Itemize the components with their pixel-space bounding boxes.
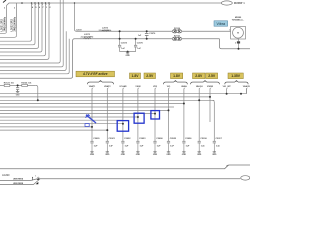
junction dot VAUX4 on bus <box>198 99 200 101</box>
wire C2074 bottom to ground rail <box>119 47 121 52</box>
resistor R2123 <box>4 84 10 86</box>
ground symbol <box>17 90 19 91</box>
wire long vertical exiting left <box>0 0 60 63</box>
svg-text:GND: GND <box>182 154 187 156</box>
svg-text:GND: GND <box>105 154 110 156</box>
junction dot VSIM on bus <box>137 116 139 118</box>
brace under 1.35V label <box>225 81 248 85</box>
svg-text:4.7V if RF active: 4.7V if RF active <box>82 72 108 76</box>
wire C2022 to ground <box>122 143 124 151</box>
svg-text:VANA: VANA <box>181 85 187 88</box>
wire VIO_INT vertical drop <box>226 89 228 94</box>
ground symbol for C2025 <box>168 151 170 152</box>
wire VBAT2 vertical drop <box>106 89 108 142</box>
wire from top bus down to L2072 wire <box>75 3 77 31</box>
wire long vertical exiting left <box>0 0 63 67</box>
ground symbol for C2022 <box>122 151 124 152</box>
svg-text:2R2/100MHz: 2R2/100MHz <box>13 16 16 31</box>
off-page connector MUXBZ oval <box>221 1 232 5</box>
wire elbow from top bus at x=38.5 exiting left <box>0 3 39 48</box>
junction dot on bus line3 <box>37 99 39 101</box>
capacitor C2022 <box>121 140 124 142</box>
wire bottom pair upper <box>0 179 38 181</box>
wire C2025 to ground <box>168 143 170 151</box>
junction dot VIO_INT on bus <box>226 93 228 95</box>
wire VIO vertical drop <box>168 89 170 142</box>
annotation label 2.5V <box>206 73 218 79</box>
annotation small blue box <box>85 124 89 127</box>
svg-text:GND: GND <box>121 154 126 156</box>
svg-text:AGND: AGND <box>2 173 10 177</box>
svg-text:M: M <box>237 33 239 35</box>
pin tick at bus entry <box>32 177 34 180</box>
svg-text:C2026: C2026 <box>185 138 192 140</box>
brace under 2.8V 2.5V labels <box>191 81 220 85</box>
svg-text:Vibra: Vibra <box>217 22 226 26</box>
capacitor C2123 branch <box>17 85 19 87</box>
wire lower vibra drive from left exit <box>0 39 172 79</box>
svg-text:C2017: C2017 <box>216 138 223 140</box>
annotation label 1.8V <box>171 73 183 79</box>
junction dot motor pin2 net <box>238 48 240 50</box>
junction dot at L2072 wire <box>119 30 121 32</box>
annotation label 2.5V <box>144 73 156 79</box>
EMI filter L2022 vertical <box>16 3 18 29</box>
svg-text:VSIM: VSIM <box>135 86 140 88</box>
svg-text:VSIM2: VSIM2 <box>207 86 214 88</box>
wire upper vibra drive horizontal <box>76 30 172 32</box>
vibra motor circle <box>233 27 244 38</box>
wire C2074 branch vertical <box>119 31 121 45</box>
resistor R2124 <box>22 84 28 86</box>
tick at AGND jog <box>226 165 228 166</box>
wire power bus line 8 <box>0 116 138 118</box>
capacitor C2021 <box>106 140 109 142</box>
wire power bus line 4 <box>0 103 184 105</box>
svg-text:1: 1 <box>35 176 36 178</box>
vibra motor M2090 box <box>231 27 246 40</box>
svg-text:VIO_INT: VIO_INT <box>223 86 232 88</box>
inductor L2072 <box>102 30 109 31</box>
wire C2026 to ground <box>183 143 185 151</box>
wire C2016 to ground <box>198 143 200 151</box>
svg-text:MUXBZ' 1: MUXBZ' 1 <box>234 3 245 5</box>
capacitor C2076 bridging vibra wires <box>146 31 148 33</box>
svg-text:C2024: C2024 <box>156 137 163 140</box>
wire VSIM2 vertical drop <box>209 89 211 97</box>
wire long vertical exiting left <box>0 39 69 74</box>
capacitor C2023 <box>136 140 139 142</box>
junction dot VIO on bus <box>168 109 170 111</box>
tick at fan wire top <box>32 4 33 5</box>
wire C2017 to ground <box>213 143 215 151</box>
wire C2020 to ground <box>91 143 93 151</box>
wire VSIM2 stub below bus <box>209 97 211 122</box>
wire top horizontal net MUXBZ to off-page <box>7 3 222 6</box>
annotation blue box <box>134 113 144 123</box>
wire power bus line 1 <box>0 93 246 95</box>
junction dot on top bus <box>21 2 23 4</box>
wire power bus line 9 <box>0 119 123 121</box>
junction dot VBAT2 on bus <box>106 129 108 131</box>
junction dot VANA on bus <box>183 103 185 105</box>
capacitor C2026 <box>182 140 185 142</box>
wire power bus line 12 <box>0 129 107 131</box>
svg-text:GND: GND <box>125 55 130 57</box>
svg-text:C2075: C2075 <box>137 43 144 45</box>
wire power bus line 6 <box>0 109 169 111</box>
wire power bus line 11 <box>0 126 92 128</box>
svg-text:2.5V: 2.5V <box>208 74 216 78</box>
wire elbow from top bus at x=31.5 exiting left <box>0 3 32 41</box>
wire from R2126 to vibra motor <box>182 30 231 32</box>
svg-text:VIO: VIO <box>167 86 171 88</box>
arrowhead at bus entry lower <box>36 182 39 184</box>
wire VSIM vertical drop <box>137 89 139 142</box>
tick at fan wire top <box>42 4 43 5</box>
wire VBAT1 vertical drop <box>91 89 93 142</box>
annotation label 2.8V <box>193 73 206 79</box>
wire VANA vertical drop <box>183 89 185 142</box>
ground symbol for C2023 <box>137 151 139 152</box>
svg-text:VBAT2: VBAT2 <box>104 85 111 88</box>
svg-text:2.2uH/100MHz: 2.2uH/100MHz <box>99 30 112 32</box>
svg-text:R2123: R2123 <box>4 83 11 85</box>
junction dot at L2073 wire <box>119 38 121 40</box>
wire bottom net AGND horizontal <box>0 165 250 169</box>
tick at fan wire top <box>39 4 40 5</box>
svg-text:2.8V: 2.8V <box>195 74 203 78</box>
junction dot on bus line1 <box>240 93 242 95</box>
junction dot C2076 top <box>146 30 148 32</box>
tick at fan wire top <box>49 4 50 5</box>
svg-text:VAUX4: VAUX4 <box>196 85 204 88</box>
wire power bus line 10 <box>0 123 123 125</box>
junction dot C2076 bottom <box>146 38 148 40</box>
annotation blue box <box>151 111 160 119</box>
wire elbow from top bus at x=49 exiting left <box>0 3 49 59</box>
svg-text:VCHAR: VCHAR <box>119 85 127 88</box>
wire from R2127 to vibra motor <box>182 38 220 40</box>
wire bus line1 corner up to VBACK wire <box>245 89 247 94</box>
wire C2023 to ground <box>137 143 139 151</box>
svg-text:GND: GND <box>197 154 202 156</box>
capacitor C2017 <box>213 140 216 142</box>
wire VAUX4 vertical drop <box>198 89 200 142</box>
wire elbow from top bus at x=35 exiting left <box>0 3 35 45</box>
svg-text:T3N0080+C..: T3N0080+C.. <box>232 20 245 22</box>
ground symbol for C2021 <box>106 151 108 152</box>
arrowhead at bus entry upper <box>37 178 40 180</box>
svg-text:VBAT1: VBAT1 <box>89 85 96 88</box>
wire C2075 bottom to ground rail <box>135 47 137 52</box>
junction dot at L2073 wire <box>135 38 137 40</box>
wire power bus line 2 <box>0 96 210 98</box>
svg-text:C2020: C2020 <box>93 138 100 140</box>
ground symbol for C2026 <box>183 151 185 152</box>
annotation label 1.35V <box>228 73 243 79</box>
svg-text:C2022: C2022 <box>124 138 131 140</box>
annotation blue pen mark <box>86 115 96 123</box>
wire row corner down to bus line3 <box>36 85 38 100</box>
ground symbol for C2017 <box>213 151 215 152</box>
svg-text:VBACK: VBACK <box>243 85 250 88</box>
annotation label 1.8V <box>130 73 141 79</box>
junction dot ground rail <box>127 51 129 53</box>
svg-text:UEMVIBRA: UEMVIBRA <box>13 178 24 181</box>
svg-text:2: 2 <box>235 43 236 45</box>
capacitor C2016 <box>198 140 201 142</box>
svg-text:1: 1 <box>229 30 230 32</box>
svg-text:C2021: C2021 <box>109 138 116 140</box>
motor bottom pin and polarity mark <box>238 39 240 41</box>
capacitor C2020 <box>90 140 93 142</box>
tick at fan wire top <box>35 4 36 5</box>
svg-text:C2072: C2072 <box>76 30 82 32</box>
wire motor pin2 down to lower net <box>238 44 240 49</box>
label Vibra highlighted <box>214 21 228 26</box>
off-page connector oval bottom right <box>241 176 250 180</box>
capacitor C2075 <box>134 44 137 46</box>
wire lower motor net elbow to right edge <box>220 39 251 49</box>
svg-text:GND: GND <box>212 154 217 156</box>
wire C2024 to ground <box>154 143 156 151</box>
brace under 1.8V label <box>164 81 188 85</box>
wire bottom net to off-page oval <box>39 178 241 180</box>
junction dot VSIM2 on bus <box>209 96 211 98</box>
svg-text:GND: GND <box>153 154 158 156</box>
pin tick at merge <box>37 177 39 178</box>
wire elbow from top bus at x=45.5 exiting left <box>0 3 46 56</box>
capacitor C2074 <box>118 44 121 46</box>
junction dot VCHAR on bus <box>122 123 124 125</box>
wire from L2021 pin1 exiting left <box>0 29 7 34</box>
junction dot VR3 on bus <box>154 113 156 115</box>
annotation label 4.7V if RF active <box>76 71 115 77</box>
svg-text:2.5V: 2.5V <box>146 74 154 78</box>
svg-text:C2016: C2016 <box>200 138 207 140</box>
EMI filter L2021 vertical <box>6 6 8 29</box>
wire power bus line 3 <box>0 99 214 101</box>
svg-text:C2074: C2074 <box>121 42 128 45</box>
junction dot VBAT1 on bus <box>91 126 93 128</box>
wire elbow from top bus at x=42 exiting left <box>0 3 42 52</box>
ground symbol GND <box>127 52 129 53</box>
annotation blue box <box>117 121 128 132</box>
svg-text:1.35V: 1.35V <box>231 74 241 78</box>
svg-text:R2124: R2124 <box>21 82 28 85</box>
wire VR3 vertical drop <box>154 89 156 142</box>
wire long vertical exiting left <box>0 31 66 70</box>
svg-text:GND: GND <box>166 154 171 156</box>
wire C2123 to ground <box>17 89 19 91</box>
brace under 4.7V label <box>88 81 114 85</box>
svg-text:UEMVIBRB: UEMVIBRB <box>13 183 24 185</box>
ground symbol for C2024 <box>154 151 156 152</box>
ferrite bead R2126 <box>172 30 177 33</box>
wire top-left corner mark <box>3 0 6 3</box>
ground symbol for C2016 <box>198 151 200 152</box>
svg-text:C2025: C2025 <box>170 138 177 140</box>
wire bus line3 corner down to C2017 cap <box>212 100 214 141</box>
tick at fan wire top <box>46 4 47 5</box>
ferrite bead R2127 <box>172 37 177 40</box>
svg-text:GND: GND <box>136 154 141 156</box>
svg-text:2R2/100MHz: 2R2/100MHz <box>3 16 6 31</box>
svg-text:C2076: C2076 <box>149 33 156 35</box>
wire bottom pair lower <box>0 179 40 185</box>
wire ground rail under C2074 C2075 <box>120 51 136 53</box>
svg-text:1.8V: 1.8V <box>173 74 181 78</box>
wire left pull-down row <box>0 84 36 86</box>
svg-text:GND: GND <box>90 154 95 156</box>
wire VCHAR vertical drop <box>122 89 124 142</box>
svg-text:2.2uH/100MHz: 2.2uH/100MHz <box>81 36 94 38</box>
capacitor C2025 <box>167 140 170 142</box>
svg-text:R2126: R2126 <box>174 28 181 30</box>
wire power bus line 7 <box>0 113 155 115</box>
capacitor C2024 <box>153 140 156 142</box>
svg-text:C2023: C2023 <box>139 138 146 140</box>
ground symbol for C2020 <box>91 151 93 152</box>
wire C2075 branch vertical <box>135 39 137 46</box>
wire from L2022 pin1 exiting left <box>0 29 17 38</box>
wire VBACK vertical drop <box>245 89 247 94</box>
svg-text:R2127: R2127 <box>174 36 181 38</box>
inductor L2073 <box>84 38 91 39</box>
wire power bus line 5 <box>0 106 174 108</box>
wire C2021 to ground <box>106 143 108 151</box>
svg-text:1.8V: 1.8V <box>132 74 140 78</box>
